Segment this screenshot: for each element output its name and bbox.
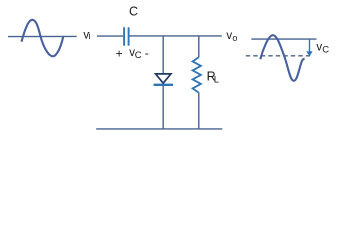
capacitor C plates <box>124 27 129 45</box>
output dc level dashed line <box>246 55 312 57</box>
resistor RL zigzag <box>193 57 201 92</box>
svg-text:C: C <box>322 45 329 56</box>
wire: bottom ground rail <box>96 128 222 130</box>
svg-text:C: C <box>129 4 138 18</box>
input sine wave <box>22 20 64 57</box>
wire: resistor branch top stub <box>198 36 200 58</box>
svg-text:o: o <box>232 33 237 43</box>
output sine wave <box>260 35 304 81</box>
svg-text:C: C <box>135 50 142 61</box>
label vo <box>226 30 237 43</box>
label + vC - <box>116 46 149 61</box>
svg-text:+: + <box>116 47 123 61</box>
output waveform zero reference line <box>251 38 316 40</box>
svg-text:L: L <box>214 75 219 86</box>
diode D1 cathode bar <box>154 84 174 86</box>
wire vi to capacitor <box>97 35 123 37</box>
wire: resistor branch bottom stub <box>198 93 200 130</box>
vC shift arrow <box>306 39 312 56</box>
input waveform axis line <box>8 35 77 37</box>
label vC <box>316 42 329 56</box>
svg-text:-: - <box>145 46 149 60</box>
wire: diode branch bottom <box>162 86 164 129</box>
wire: diode branch top <box>162 36 164 74</box>
wire: top rail to output node vo <box>130 35 222 37</box>
label RL <box>207 70 219 86</box>
diode D1 triangle <box>156 74 171 83</box>
svg-text:i: i <box>88 31 90 41</box>
label vi <box>83 29 90 41</box>
